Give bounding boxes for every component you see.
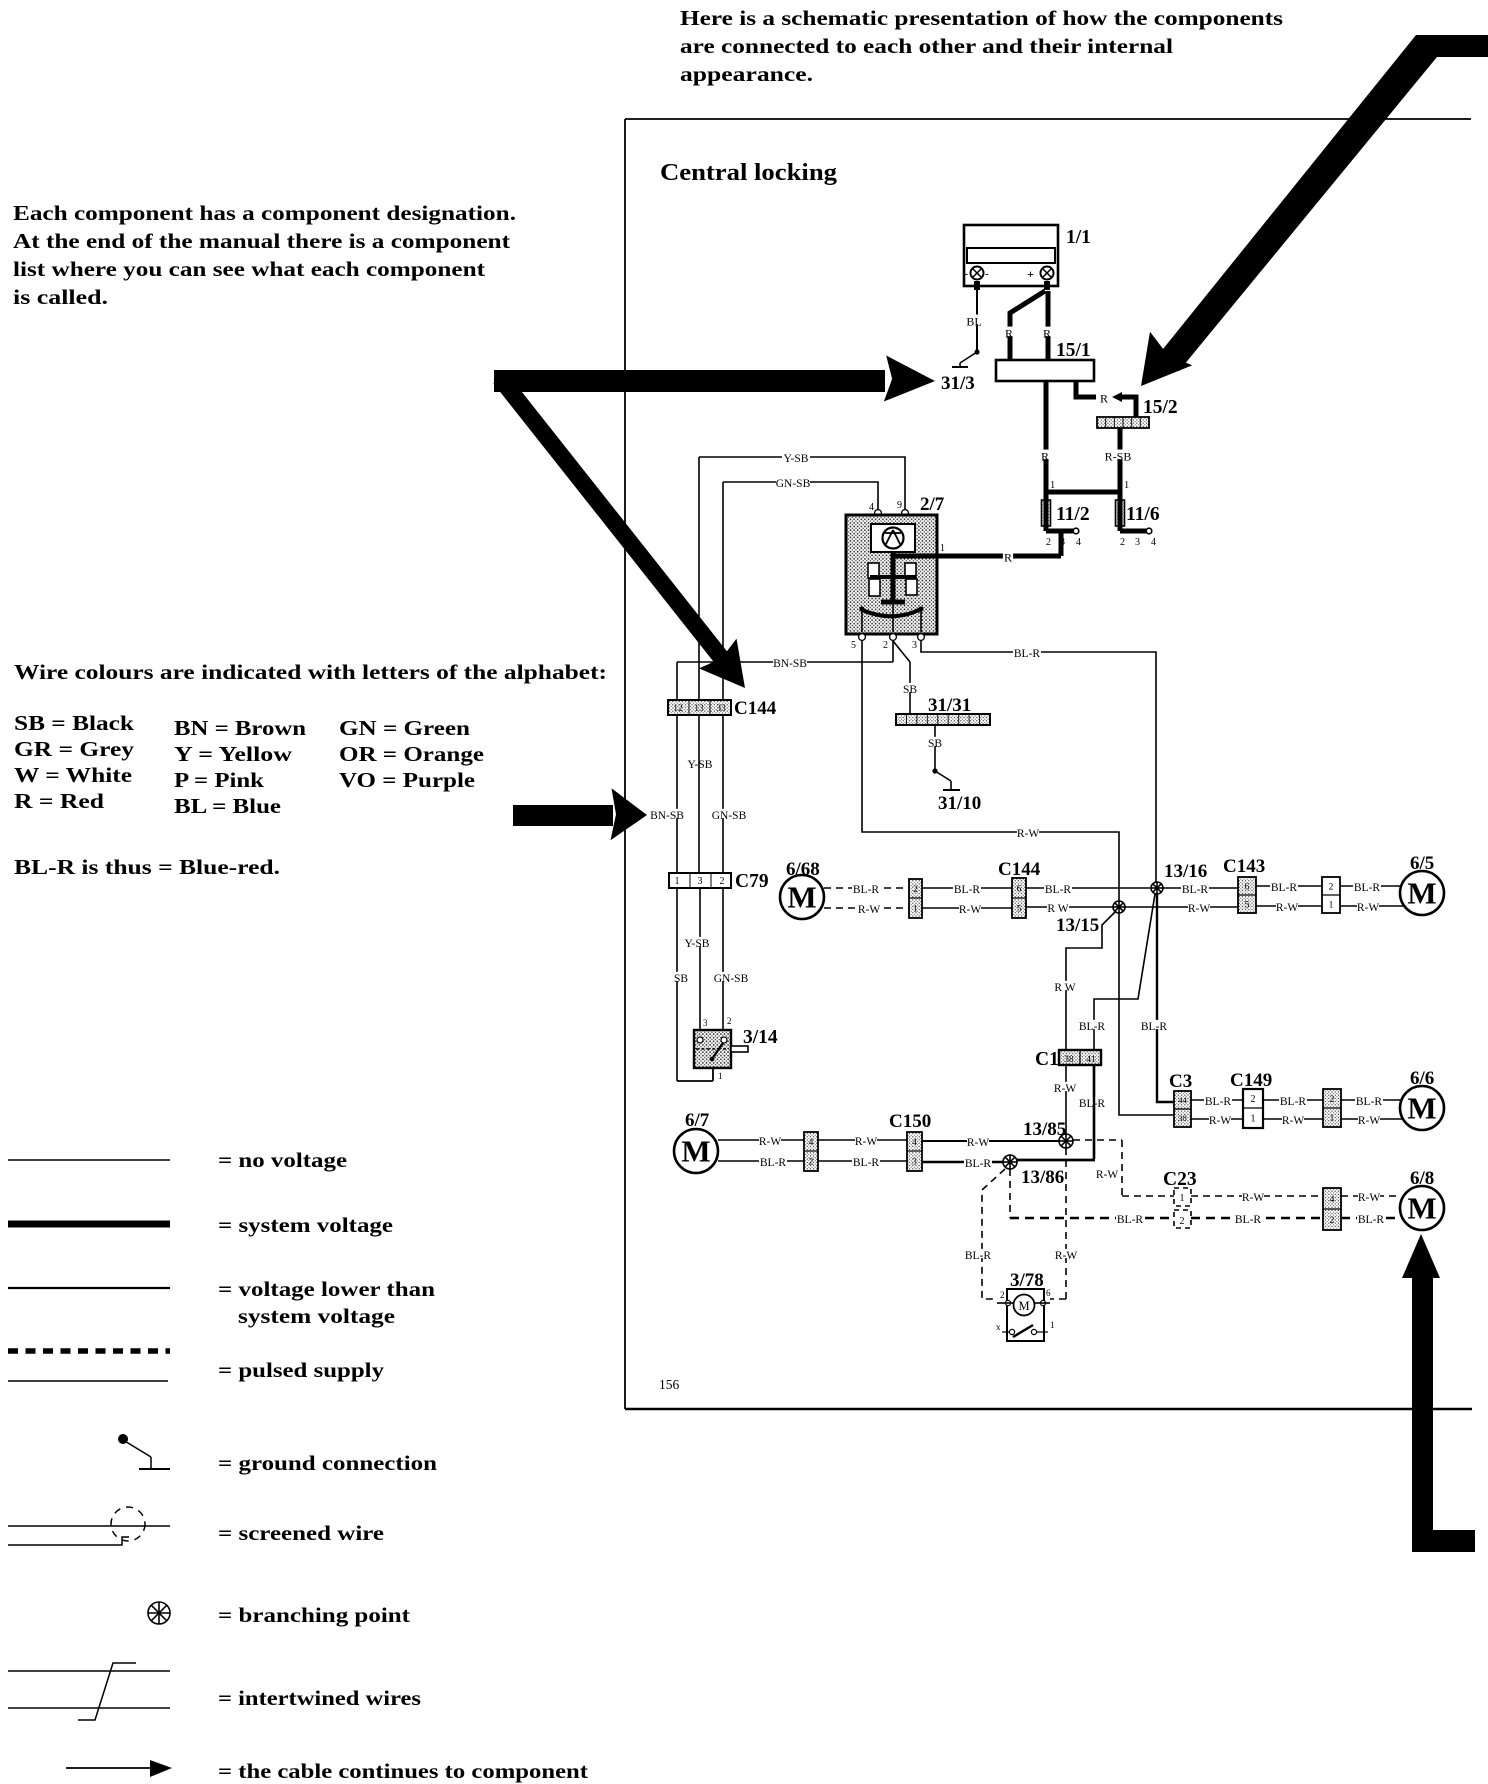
svg-text:11/2: 11/2 xyxy=(1056,504,1090,525)
svg-text:BL-R: BL-R xyxy=(954,884,981,896)
svg-text:C144: C144 xyxy=(998,859,1041,880)
svg-text:1: 1 xyxy=(913,904,918,914)
svg-text:BL-R: BL-R xyxy=(1356,1096,1383,1108)
svg-text:2: 2 xyxy=(727,1016,732,1026)
svg-text:BL-R: BL-R xyxy=(1141,1021,1168,1033)
svg-text:GN-SB: GN-SB xyxy=(714,973,749,985)
svg-text:1: 1 xyxy=(940,543,945,554)
svg-text:= intertwined wires: = intertwined wires xyxy=(218,1686,421,1710)
svg-text:5: 5 xyxy=(851,640,856,651)
svg-text:GN = Green: GN = Green xyxy=(339,716,470,740)
svg-text:1: 1 xyxy=(1330,1114,1335,1124)
svg-text:GN-SB: GN-SB xyxy=(712,810,747,822)
svg-text:2: 2 xyxy=(1329,882,1334,892)
svg-text:list where you can see what ea: list where you can see what each compone… xyxy=(13,257,486,281)
svg-text:1: 1 xyxy=(675,876,680,887)
svg-text:R-W: R-W xyxy=(1096,1169,1119,1181)
svg-text:C1: C1 xyxy=(1035,1049,1059,1070)
svg-text:M: M xyxy=(1407,1091,1436,1126)
svg-text:C150: C150 xyxy=(889,1111,931,1132)
svg-text:1: 1 xyxy=(1050,480,1055,491)
svg-text:R-W: R-W xyxy=(1358,1192,1381,1204)
svg-text:BL: BL xyxy=(966,314,981,328)
svg-text:2: 2 xyxy=(1000,1290,1005,1300)
svg-text:3: 3 xyxy=(703,1018,708,1028)
svg-text:BL-R: BL-R xyxy=(1117,1214,1144,1226)
svg-text:41: 41 xyxy=(1086,1055,1096,1065)
svg-text:SB: SB xyxy=(928,738,942,750)
svg-text:C143: C143 xyxy=(1223,856,1265,877)
svg-text:5: 5 xyxy=(1017,904,1022,914)
svg-text:4: 4 xyxy=(1330,1195,1335,1205)
svg-text:15/2: 15/2 xyxy=(1143,397,1178,418)
svg-text:BN = Brown: BN = Brown xyxy=(174,716,306,740)
svg-text:R: R xyxy=(1043,326,1051,340)
svg-text:Y-SB: Y-SB xyxy=(784,453,809,465)
svg-text:C144: C144 xyxy=(734,698,777,719)
svg-text:BL-R is thus = Blue-red.: BL-R is thus = Blue-red. xyxy=(14,855,280,879)
svg-text:2: 2 xyxy=(720,876,725,887)
svg-text:Each component has a component: Each component has a component designati… xyxy=(13,201,516,225)
svg-text:2: 2 xyxy=(1046,537,1051,548)
svg-text:R-W: R-W xyxy=(1054,1083,1077,1095)
svg-text:1: 1 xyxy=(1180,1193,1185,1204)
svg-text:= ground connection: = ground connection xyxy=(218,1451,437,1475)
svg-text:4: 4 xyxy=(1076,537,1081,548)
svg-text:R W: R W xyxy=(1054,982,1075,994)
svg-text:GN-SB: GN-SB xyxy=(776,478,811,490)
svg-text:OR = Orange: OR = Orange xyxy=(339,742,484,766)
svg-text:R: R xyxy=(1004,550,1012,564)
svg-text:31/31: 31/31 xyxy=(928,695,971,716)
svg-text:= branching point: = branching point xyxy=(218,1603,410,1627)
svg-text:3: 3 xyxy=(1060,537,1065,548)
svg-text:BL-R: BL-R xyxy=(1358,1214,1385,1226)
svg-text:3/78: 3/78 xyxy=(1010,1270,1044,1291)
svg-text:6/5: 6/5 xyxy=(1410,853,1434,874)
svg-text:6: 6 xyxy=(1046,1288,1051,1298)
svg-text:R-W: R-W xyxy=(967,1137,990,1149)
svg-text:9: 9 xyxy=(897,500,902,511)
svg-text:15/1: 15/1 xyxy=(1056,340,1091,361)
svg-text:13: 13 xyxy=(694,704,704,714)
svg-text:13/86: 13/86 xyxy=(1021,1167,1064,1188)
svg-text:P = Pink: P = Pink xyxy=(174,768,264,792)
svg-text:2: 2 xyxy=(1180,1216,1185,1227)
svg-text:GR = Grey: GR = Grey xyxy=(14,737,134,761)
svg-text:3: 3 xyxy=(912,640,917,651)
svg-text:3: 3 xyxy=(912,1157,917,1167)
svg-text:M: M xyxy=(681,1134,710,1169)
svg-text:31/10: 31/10 xyxy=(938,793,981,814)
svg-text:6/6: 6/6 xyxy=(1410,1068,1434,1089)
svg-text:R-W: R-W xyxy=(1357,902,1380,914)
svg-text:4: 4 xyxy=(912,1138,917,1148)
svg-text:R-W: R-W xyxy=(1242,1192,1265,1204)
svg-text:6/68: 6/68 xyxy=(786,859,820,880)
svg-text:BL-R: BL-R xyxy=(965,1250,992,1262)
svg-text:2: 2 xyxy=(1251,1094,1256,1105)
svg-text:SB = Black: SB = Black xyxy=(14,711,134,735)
svg-text:R-SB: R-SB xyxy=(1105,449,1132,463)
svg-text:4: 4 xyxy=(809,1138,814,1148)
svg-text:3/14: 3/14 xyxy=(743,1027,778,1048)
svg-text:appearance.: appearance. xyxy=(680,62,813,86)
svg-text:BL-R: BL-R xyxy=(853,1157,880,1169)
svg-text:BL-R: BL-R xyxy=(1079,1021,1106,1033)
svg-text:2: 2 xyxy=(913,885,918,895)
svg-text:R-W: R-W xyxy=(1055,1250,1078,1262)
svg-text:Y = Yellow: Y = Yellow xyxy=(174,742,293,766)
svg-text:13/15: 13/15 xyxy=(1056,915,1099,936)
svg-text:R = Red: R = Red xyxy=(14,789,104,813)
svg-text:Here is a schematic presentati: Here is a schematic presentation of how … xyxy=(680,6,1283,30)
svg-text:= system voltage: = system voltage xyxy=(218,1213,393,1237)
svg-text:R: R xyxy=(1005,326,1013,340)
svg-text:R-W: R-W xyxy=(759,1136,782,1148)
svg-text:= screened wire: = screened wire xyxy=(218,1521,384,1545)
svg-text:Y-SB: Y-SB xyxy=(685,938,710,950)
svg-text:R-W: R-W xyxy=(858,904,881,916)
svg-text:+: + xyxy=(1027,267,1034,281)
svg-text:SB: SB xyxy=(903,684,917,696)
svg-text:BN-SB: BN-SB xyxy=(773,658,807,670)
svg-text:1: 1 xyxy=(1050,1320,1055,1330)
svg-text:R: R xyxy=(1100,391,1108,405)
svg-text:M: M xyxy=(1018,1299,1029,1313)
svg-text:38: 38 xyxy=(1064,1055,1074,1065)
svg-text:44: 44 xyxy=(1178,1095,1187,1105)
svg-text:system voltage: system voltage xyxy=(238,1304,395,1328)
svg-text:6/8: 6/8 xyxy=(1410,1168,1434,1189)
svg-text:13/16: 13/16 xyxy=(1164,861,1207,882)
svg-text:6: 6 xyxy=(1245,882,1250,892)
svg-text:5: 5 xyxy=(1245,900,1250,910)
svg-text:SB: SB xyxy=(674,973,688,985)
svg-text:BL-R: BL-R xyxy=(965,1158,992,1170)
svg-text:38: 38 xyxy=(1178,1113,1187,1123)
svg-text:3: 3 xyxy=(1135,537,1140,548)
svg-text:1/1: 1/1 xyxy=(1066,227,1091,248)
svg-text:M: M xyxy=(1407,876,1436,911)
svg-text:C3: C3 xyxy=(1169,1071,1192,1092)
svg-text:Central locking: Central locking xyxy=(660,159,838,186)
svg-text:R-W: R-W xyxy=(1358,1115,1381,1127)
svg-text:R-W: R-W xyxy=(855,1136,878,1148)
svg-text:BL-R: BL-R xyxy=(1354,882,1381,894)
svg-text:BL-R: BL-R xyxy=(1079,1098,1106,1110)
svg-text:R-W: R-W xyxy=(1276,902,1299,914)
svg-text:1: 1 xyxy=(1251,1114,1256,1125)
svg-text:2: 2 xyxy=(883,640,888,651)
svg-text:BL-R: BL-R xyxy=(1280,1096,1307,1108)
svg-text:BL-R: BL-R xyxy=(1205,1096,1232,1108)
svg-text:C149: C149 xyxy=(1230,1070,1272,1091)
svg-text:= voltage lower than: = voltage lower than xyxy=(218,1277,435,1301)
svg-text:BL = Blue: BL = Blue xyxy=(174,794,281,818)
svg-text:M: M xyxy=(787,880,816,915)
svg-text:At the end of the manual there: At the end of the manual there is a comp… xyxy=(13,229,511,253)
svg-text:12: 12 xyxy=(673,704,683,714)
svg-text:Wire colours are indicated wit: Wire colours are indicated with letters … xyxy=(14,660,607,684)
svg-text:C79: C79 xyxy=(735,871,769,892)
svg-text:-: - xyxy=(985,268,989,280)
svg-text:R W: R W xyxy=(1047,903,1068,915)
svg-text:3: 3 xyxy=(698,876,703,887)
svg-text:2: 2 xyxy=(1120,537,1125,548)
svg-text:11/6: 11/6 xyxy=(1126,504,1160,525)
svg-text:R-W: R-W xyxy=(1282,1115,1305,1127)
svg-text:is called.: is called. xyxy=(13,285,108,309)
svg-text:1: 1 xyxy=(1329,900,1334,910)
svg-text:BL-R: BL-R xyxy=(1045,884,1072,896)
svg-text:6/7: 6/7 xyxy=(685,1110,710,1131)
svg-text:BL-R: BL-R xyxy=(1235,1214,1262,1226)
svg-text:BL-R: BL-R xyxy=(1271,882,1298,894)
svg-text:W = White: W = White xyxy=(14,763,132,787)
svg-text:= pulsed supply: = pulsed supply xyxy=(218,1358,385,1382)
svg-text:-: - xyxy=(964,268,968,280)
svg-text:31/3: 31/3 xyxy=(941,373,975,394)
svg-text:R-W: R-W xyxy=(1188,903,1211,915)
svg-text:are connected to each other an: are connected to each other and their in… xyxy=(680,34,1173,58)
svg-text:4: 4 xyxy=(1151,537,1156,548)
svg-text:1: 1 xyxy=(1124,480,1129,491)
svg-text:M: M xyxy=(1407,1191,1436,1226)
svg-text:33: 33 xyxy=(716,704,726,714)
svg-text:x: x xyxy=(996,1322,1001,1332)
svg-text:2: 2 xyxy=(1330,1095,1335,1105)
svg-text:2/7: 2/7 xyxy=(920,494,945,515)
svg-text:= the cable continues to compo: = the cable continues to component xyxy=(218,1759,588,1783)
svg-text:BL-R: BL-R xyxy=(853,884,880,896)
svg-text:R: R xyxy=(1041,449,1049,463)
svg-text:BN-SB: BN-SB xyxy=(650,810,684,822)
svg-text:2: 2 xyxy=(1330,1216,1335,1226)
svg-text:Y-SB: Y-SB xyxy=(688,759,713,771)
svg-text:BL-R: BL-R xyxy=(1014,648,1041,660)
svg-text:6: 6 xyxy=(1017,884,1022,894)
svg-text:4: 4 xyxy=(869,502,874,513)
svg-text:R-W: R-W xyxy=(1209,1115,1232,1127)
svg-text:1: 1 xyxy=(718,1071,723,1081)
svg-text:R-W: R-W xyxy=(959,904,982,916)
svg-text:156: 156 xyxy=(659,1377,680,1392)
svg-text:BL-R: BL-R xyxy=(760,1157,787,1169)
svg-text:BL-R: BL-R xyxy=(1182,884,1209,896)
svg-text:2: 2 xyxy=(809,1157,814,1167)
svg-text:VO = Purple: VO = Purple xyxy=(339,768,475,792)
svg-text:C23: C23 xyxy=(1163,1169,1197,1190)
svg-text:R-W: R-W xyxy=(1017,828,1040,840)
svg-text:= no voltage: = no voltage xyxy=(218,1148,347,1172)
